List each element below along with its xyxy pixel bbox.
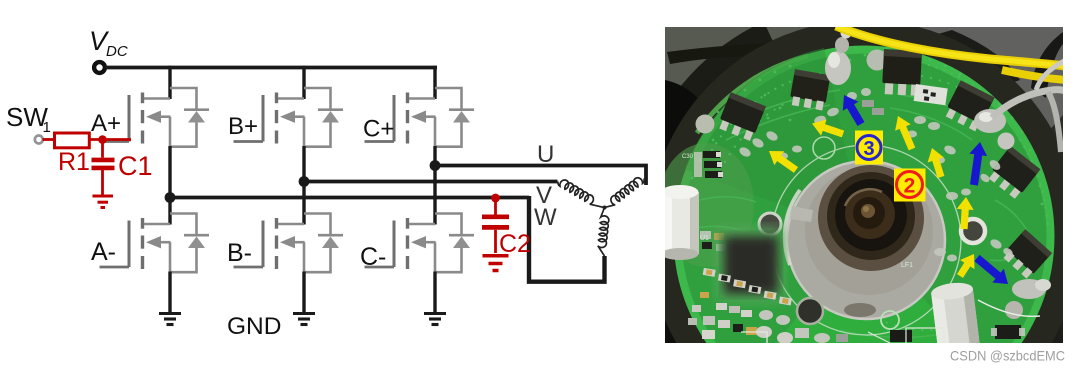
silkscreen circle arc around hub (771, 145, 961, 335)
ground phase A (159, 314, 181, 325)
svg-text:1: 1 (43, 119, 51, 136)
white cylinder capacitor left (662, 185, 700, 260)
svg-text:CSDN @szbcdEMC: CSDN @szbcdEMC (950, 348, 1065, 364)
green PCB board (674, 46, 1054, 371)
blue arrow B2 up (969, 142, 987, 186)
hub inner brown (845, 189, 895, 239)
yellow arrow Y3 up-left (895, 116, 915, 150)
housing black top-right fins (938, 30, 1020, 86)
via ring near top (813, 137, 835, 159)
wire B+ source to node B (302, 146, 305, 182)
transistor C- low-side MOSFET with body diode (365, 214, 475, 273)
yellow arrow Y5 up (957, 197, 974, 229)
silkscreen white IC footprint top-right (914, 84, 948, 105)
wire phase B drain (302, 66, 305, 99)
wire U output rail (435, 166, 646, 186)
label 3 circled blue on yellow (855, 131, 883, 165)
capacitor C2 (482, 198, 509, 253)
wire A- source to ground (168, 272, 171, 314)
board darker upper-left sector (685, 48, 864, 236)
round pad right (998, 133, 1015, 150)
transistor C+ high-side MOSFET with body diode (365, 88, 475, 147)
housing dark annulus around board (661, 33, 1067, 371)
ground phase B (293, 314, 315, 325)
solder blob right big (974, 109, 1006, 133)
screw hole top-left pale (696, 115, 715, 134)
board bright lower sector (743, 236, 1006, 371)
node A+ junction red (98, 135, 107, 144)
white outline footprints bottom (906, 328, 944, 344)
hub dark zone (818, 165, 924, 271)
svg-text:C1: C1 (118, 151, 153, 181)
transistor A- low-side MOSFET with body diode (100, 214, 210, 273)
wire C node to C- drain (433, 166, 436, 225)
small diodes D4 D3 D2 left edge (694, 151, 723, 178)
housing top-right gray (885, 27, 1063, 140)
blurred IC bottom-left (718, 229, 782, 301)
motor winding coil W (bottom) (598, 208, 609, 257)
SMD resistor row bottom-left (700, 268, 794, 306)
yellow arrow Y6 up-right (957, 254, 975, 278)
hub inner shade ring (805, 167, 933, 295)
wire R1 to gate A+ (89, 138, 131, 141)
screw hole bottom-left ringed (797, 298, 823, 324)
svg-text:C-: C- (360, 243, 386, 271)
svg-text:LF1: LF1 (901, 262, 913, 269)
svg-text:DC: DC (106, 43, 128, 60)
board rim highlight (678, 50, 1051, 371)
mosfet top-right (943, 80, 995, 132)
black component ZD1 bottom (890, 330, 912, 342)
small components above IC (700, 231, 711, 239)
svg-text:C+: C+ (363, 116, 394, 143)
svg-text:W: W (534, 204, 557, 231)
svg-text:B+: B+ (228, 113, 258, 140)
wire A- drain (168, 198, 171, 225)
photo background housing (665, 27, 1063, 343)
housing black top-left fin (650, 35, 770, 178)
wire V output rail (304, 180, 558, 184)
motor winding coil V (left) (555, 177, 608, 210)
hub black ring (835, 179, 907, 251)
transistor B+ high-side MOSFET with body diode (234, 88, 344, 147)
mosfet bottom-right (1001, 229, 1052, 280)
solder pads small cluster left-mid (751, 137, 765, 150)
svg-text:U1: U1 (700, 235, 709, 242)
node A junction (165, 192, 176, 203)
yellow cable top (836, 26, 1066, 66)
yellow arrow Y4 up (928, 148, 945, 178)
svg-text:C2: C2 (499, 230, 531, 258)
yellow arrow Y2 left (812, 120, 844, 138)
board texture dots (683, 51, 1044, 216)
housing bottom-right corner dark (1002, 278, 1063, 343)
ground C1 red (93, 196, 114, 208)
screw hole top-center pale (867, 50, 888, 71)
board trace lines (688, 90, 1032, 337)
wire SW1 to R1 (43, 138, 55, 141)
svg-text:2: 2 (904, 175, 916, 198)
switch terminal SW1 (35, 136, 43, 144)
mosfet symbol instances (717, 49, 1053, 280)
terminal VDC (94, 62, 105, 73)
hub left bright arc (785, 190, 800, 265)
ground phase C (424, 314, 446, 325)
hub outer silver disc (786, 160, 946, 320)
mosfet top-left (789, 69, 831, 111)
svg-text:B-: B- (227, 239, 252, 267)
board pale component zone left (658, 143, 754, 267)
mosfet top-center (882, 49, 922, 96)
white cylinder capacitor bottom (930, 281, 979, 349)
wire W output rail (168, 196, 529, 200)
screw hole left-lower ring (759, 213, 781, 235)
hub left notch (790, 206, 813, 222)
via ring bottom-center (881, 311, 899, 329)
svg-text:A+: A+ (91, 110, 121, 137)
capacitor C1 (92, 141, 115, 195)
svg-text:GND: GND (227, 313, 281, 340)
transistor A+ high-side MOSFET with body diode (100, 88, 210, 147)
housing black band left (665, 80, 722, 220)
hub bottom dark blob (844, 303, 876, 317)
svg-text:A-: A- (91, 238, 116, 266)
gray cable (992, 90, 1066, 118)
svg-text:C30: C30 (682, 154, 694, 160)
hub bearing highlight arc (845, 189, 882, 206)
svg-text:R1: R1 (58, 148, 90, 176)
wire phase C drain (433, 66, 436, 99)
wire B- drain (302, 182, 305, 225)
node C junction (430, 160, 441, 171)
wire phase A drain (168, 66, 171, 99)
mosfet top-far-left (717, 92, 766, 141)
node B junction (299, 176, 310, 187)
motor star point node (603, 206, 607, 210)
resistor R1 (55, 133, 90, 148)
wire A+ source to node A (168, 146, 171, 199)
solder blob top-center with wire joint (825, 51, 851, 85)
wire C- source to ground (433, 272, 436, 314)
board rim bright top-left arc (697, 56, 808, 133)
housing shading top-left (665, 27, 875, 118)
motor winding coil U (right) (600, 175, 648, 211)
wire B- source to ground (302, 272, 305, 314)
transistor B- low-side MOSFET with body diode (234, 214, 344, 273)
solder blob bottom-right (1012, 279, 1046, 299)
node W C2 junction red (491, 194, 500, 203)
label 2 circled red on yellow (894, 169, 926, 202)
housing black bottom-left corner (665, 245, 706, 343)
yellow arrow Y1 up-left (769, 151, 798, 173)
svg-text:U: U (537, 141, 554, 168)
blue arrow B1 up (843, 95, 865, 126)
mosfet right (986, 146, 1040, 200)
screw hole right white ring (961, 219, 985, 243)
wire top DC bus (105, 66, 437, 70)
svg-text:3: 3 (863, 138, 874, 160)
board dotted texture arcs (712, 60, 1048, 330)
blue arrow B3 down-right (974, 255, 1008, 284)
housing right dark strip (1032, 115, 1063, 315)
wire C+ source to node C (433, 146, 436, 166)
ground C2 red (483, 256, 509, 271)
wire W down and to motor (529, 196, 605, 282)
